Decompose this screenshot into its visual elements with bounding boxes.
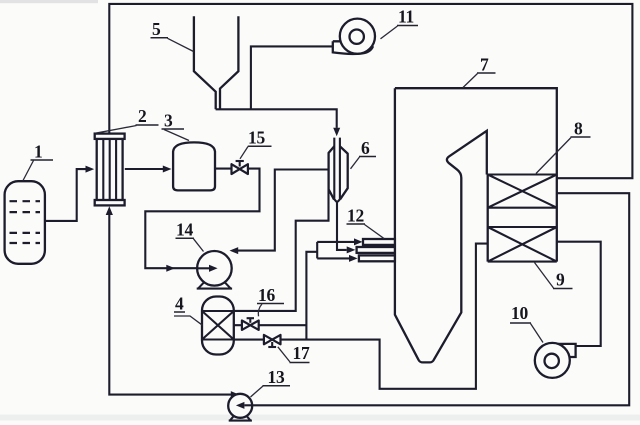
svg-text:10: 10 [511,303,528,323]
tank 1 [5,181,45,264]
wire fan 10 outlet up to HX9 right [557,242,601,346]
wire fan 11 duct down to hopper discharge header [251,46,333,108]
svg-text:7: 7 [480,55,489,75]
burner nozzle N1 [363,239,395,245]
wire column 2 outlet to drum 3 [125,168,163,170]
wire riser to burner manifold [306,252,317,340]
svg-text:14: 14 [176,220,193,240]
boiler 7 furnace walls, ash hopper and nose [395,88,487,362]
wire steam loop: column 2 top to top border, right border, into HX8 top [109,4,632,178]
HX duct walls between 8 and 9 [488,175,557,262]
svg-text:5: 5 [152,19,161,39]
vessel 4 seams and X [202,311,234,340]
wire vessel 4 lower line through valve 17, air duct under furnace up to HX9 left [234,244,488,389]
wire eductor 6 outlet down to middle burner nozzle [337,201,347,250]
svg-text:8: 8 [574,119,583,139]
fan 10 [535,343,570,378]
wire manifold to top nozzle N1 [317,241,354,243]
heat exchanger 9 (X box) [488,227,557,262]
boiler 7 outer box [395,88,557,174]
fan 11 casing [333,41,373,54]
arrow into pump 14 top-right [230,247,239,254]
arrow into nozzle N2 [347,246,356,253]
arrow into column 2 left [86,166,95,173]
pump 14 [197,251,232,286]
arrow into nozzle N3 [349,255,358,262]
svg-text:15: 15 [248,128,265,148]
arrow into drum 3 [163,166,172,173]
wire pipe A: vessel 4 top seam to eductor 6 shell bottom [234,190,329,311]
fan 11 [340,19,375,54]
svg-text:17: 17 [293,343,310,363]
svg-text:3: 3 [164,111,173,131]
svg-text:16: 16 [258,285,275,305]
heat exchanger 8 (X box) [488,175,557,208]
column 2 bottom header [95,200,125,205]
svg-text:9: 9 [556,270,565,290]
pump 13 [228,394,252,418]
valve 15 [232,164,240,174]
wire tank 1 outlet to column 2 inlet [45,169,87,221]
svg-text:6: 6 [361,138,370,158]
pump 14 base [198,282,230,289]
valve 17 [264,335,272,344]
svg-text:12: 12 [347,206,364,226]
wire drum 3 through valve 15, return loop to pump 14 inlet [145,169,259,269]
wire pump 13 discharge to column 2 bottom [109,210,231,395]
eductor 6 shell [329,146,335,199]
hopper 5 [194,16,239,109]
arrow into nozzle N1 [354,238,363,245]
arrow into pump 13 top [231,391,239,398]
burner manifold left edge [316,242,318,259]
column 2 top header [95,134,125,139]
fan 10 casing [556,344,576,357]
svg-text:13: 13 [268,367,285,387]
column 2 body [97,137,123,202]
arrow down into eductor 6 [333,128,340,137]
burner nozzle N2 [357,247,395,253]
pump 13 base [230,416,250,420]
wire HX8 outlet right, down right side, pump 13 suction line [252,193,630,405]
vessel 4 [202,297,234,355]
wire eductor 6 shell port to pump 14 top [238,170,329,251]
wire hopper 5 discharge header to eductor 6 top [216,109,337,128]
edge artifact top left [0,0,98,3]
svg-text:11: 11 [398,7,414,27]
tank 1 dashed levels [10,201,41,243]
arrow on pump 14 inlet line [166,265,175,272]
wire vessel 4 upper outlet through valve 16 [234,324,307,326]
edge artifact bottom band [0,415,640,421]
eductor 6 inner tube [334,138,340,202]
arrow up into column 2 bottom [106,206,113,215]
svg-text:2: 2 [138,106,146,126]
drum 3 [173,142,215,190]
burner nozzle N3 [359,255,395,261]
svg-text:4: 4 [175,294,184,314]
wire manifold to bottom nozzle N3 [317,257,349,259]
valve 16 [242,321,250,330]
column 2 tubes [103,138,116,202]
svg-text:1: 1 [34,142,42,162]
